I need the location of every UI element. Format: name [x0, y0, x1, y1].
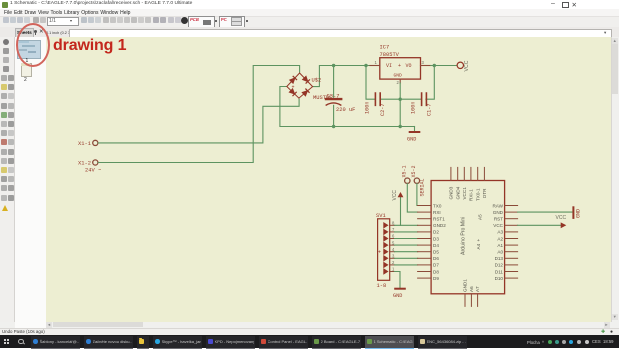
svg-text:7805TV: 7805TV: [380, 52, 400, 58]
svg-text:GND: GND: [493, 209, 504, 214]
wire IC7 output to VCC: [431, 64, 457, 66]
pin 1 of IC7: [370, 60, 380, 66]
svg-text:X1-2: X1-2: [78, 160, 91, 166]
wire GND pin to ground right: [518, 211, 572, 213]
svg-text:VI: VI: [386, 62, 392, 68]
svg-text:D7: D7: [433, 262, 439, 267]
wire C2 branch down: [366, 65, 375, 99]
svg-text:VCC: VCC: [392, 189, 398, 200]
svg-text:C1-7: C1-7: [427, 103, 433, 115]
terminal X1-1: [78, 140, 98, 147]
bridge rectifier U$2: [287, 73, 313, 98]
sheets tab: [15, 28, 34, 38]
svg-text:D12: D12: [495, 262, 504, 267]
wire VCC pin to supply arrow: [518, 224, 561, 226]
svg-text:TX0-1: TX0-1: [475, 188, 480, 201]
junction output / C1 branch: [433, 63, 436, 66]
svg-text:D9: D9: [433, 275, 439, 280]
wire bridge minus to bottom rail: [280, 86, 415, 126]
svg-text:RST1: RST1: [433, 216, 445, 221]
svg-text:24V ~: 24V ~: [85, 167, 101, 173]
svg-text:D13: D13: [495, 256, 504, 261]
SV1 pin numbers 8..1: [392, 220, 395, 271]
pin 3 of IC7: [421, 60, 431, 66]
command input: [69, 29, 612, 38]
junction cap row: [399, 97, 402, 100]
sheet thumb 1: [17, 40, 41, 59]
supply VCC arrow up: [392, 189, 403, 225]
wire bridge plus to top rail: [313, 65, 370, 86]
Arduino Pro Mini U1: [431, 180, 505, 293]
svg-text:VCC: VCC: [464, 60, 470, 71]
svg-text:A2: A2: [497, 236, 503, 241]
svg-text:+: +: [378, 249, 381, 255]
wire cap row: [381, 98, 421, 100]
wire X5-2 to TX0: [416, 183, 419, 205]
capacitor C3 220uF top plate: [326, 97, 341, 99]
svg-text:GND: GND: [576, 208, 582, 217]
svg-text:A6: A6: [469, 285, 474, 291]
svg-text:C2-7: C2-7: [380, 103, 386, 115]
junction top rail / C3: [332, 63, 335, 66]
svg-text:RST: RST: [494, 216, 503, 221]
junction bottom rail / 7805 gnd: [399, 124, 402, 127]
svg-text:A5: A5: [478, 213, 483, 219]
capacitor C2 100n: [364, 93, 386, 116]
svg-text:D2: D2: [433, 229, 439, 234]
svg-text:GND2: GND2: [433, 223, 446, 228]
wire IC7 gnd down to rail: [399, 83, 401, 127]
junction bottom rail / C3: [332, 124, 335, 127]
junction top rail / C2 branch: [364, 63, 367, 66]
svg-text:IC7: IC7: [380, 44, 390, 50]
svg-text:VCC: VCC: [556, 215, 567, 221]
diode D-TL: [290, 76, 297, 83]
schematic SVG placed over canvas: [46, 37, 610, 322]
terminal X1-2: [78, 159, 98, 166]
svg-text:RXI: RXI: [433, 209, 441, 214]
svg-text:X5-2: X5-2: [411, 165, 417, 177]
svg-text:2: 2: [397, 80, 400, 85]
wire C3 bottom: [333, 105, 335, 126]
Arduino right pin names: [492, 203, 503, 281]
wire C1 branch down: [426, 65, 434, 99]
capacitor C1 100n: [410, 93, 432, 116]
sheet thumb 2: [21, 63, 33, 77]
Arduino top pin names: [449, 186, 488, 201]
dropdown combo: [47, 17, 79, 26]
svg-text:D4: D4: [433, 242, 439, 247]
svg-text:GND: GND: [393, 293, 402, 299]
Arduino right pin stubs: [505, 205, 518, 278]
supply VCC arrow right: [561, 222, 567, 228]
svg-text:RXI-1: RXI-1: [469, 188, 474, 200]
Arduino inner labels A5 A4: [476, 213, 483, 249]
ground GND1 under rail: [407, 126, 419, 142]
svg-text:X5-1: X5-1: [402, 165, 408, 177]
wire X1-1 to bridge bottom (AC2): [98, 99, 299, 143]
Arduino left pin names: [433, 203, 446, 281]
svg-text:GND3: GND3: [449, 186, 454, 199]
Arduino bottom pin stubs: [465, 293, 478, 306]
svg-text:GND: GND: [394, 72, 403, 78]
supply VCC circle: [457, 60, 470, 71]
SV1 pin arrows: [384, 222, 388, 273]
jumper X5-1: [402, 165, 410, 183]
pin 2 of IC7: [397, 79, 401, 85]
Arduino bottom pin names: [463, 278, 481, 291]
svg-text:100n: 100n: [410, 101, 416, 113]
svg-text:1: 1: [375, 60, 378, 65]
svg-text:VO: VO: [406, 62, 412, 68]
svg-text:GND1: GND1: [463, 278, 468, 291]
red logo buttons: [188, 16, 215, 28]
svg-text:SV1: SV1: [376, 213, 386, 219]
svg-text:A7: A7: [475, 285, 480, 291]
svg-text:VCC1: VCC1: [462, 186, 467, 199]
svg-text:VCC: VCC: [493, 223, 503, 228]
wire SV1-8 to GND2 with VCC tap: [395, 224, 418, 226]
svg-text:SERIAL: SERIAL: [420, 178, 426, 196]
svg-text:RAW: RAW: [492, 203, 503, 208]
svg-text:D3: D3: [433, 236, 439, 241]
voltage regulator IC7 7805TV: [380, 44, 421, 79]
diode D-BR: [302, 88, 309, 95]
ground under SV1: [393, 288, 405, 298]
wire X5-1 to RXI: [407, 183, 417, 212]
Arduino left pin stubs: [418, 205, 432, 278]
svg-text:A3: A3: [497, 229, 503, 234]
svg-text:+: +: [292, 84, 295, 90]
Arduino top pin stubs: [451, 167, 485, 180]
svg-text:GND: GND: [407, 136, 416, 142]
svg-text:220 uF: 220 uF: [336, 107, 355, 113]
connector SV1: [376, 213, 390, 289]
svg-text:A0: A0: [497, 249, 503, 254]
diode D-BL: [289, 88, 296, 95]
svg-text:100n: 100n: [364, 101, 370, 113]
svg-text:D8: D8: [433, 269, 439, 274]
wire X1-2 to bridge top (AC1): [98, 65, 299, 162]
svg-text:A1: A1: [497, 242, 503, 247]
svg-text:DTR: DTR: [482, 187, 487, 197]
svg-text:X1-1: X1-1: [78, 141, 91, 147]
svg-text:U$2: U$2: [312, 77, 322, 83]
SV1 pin stubs: [390, 225, 395, 271]
svg-text:D5: D5: [433, 249, 439, 254]
svg-text:D6: D6: [433, 256, 439, 261]
wire SV1-1 to ground: [395, 271, 400, 288]
svg-text:GND4: GND4: [455, 186, 460, 199]
svg-text:MUSTBE: MUSTBE: [313, 95, 332, 101]
svg-text:D10: D10: [495, 275, 504, 280]
coordinate display: [46, 31, 75, 35]
svg-text:+: +: [476, 238, 481, 241]
diode D-TR: [303, 76, 310, 83]
svg-text:+: +: [398, 62, 401, 68]
svg-text:Arduino Pro Mini: Arduino Pro Mini: [461, 216, 467, 254]
svg-text:3: 3: [422, 60, 425, 65]
wire C3 top: [333, 65, 335, 97]
jumper X5-2: [411, 165, 419, 183]
capacitor C3 curved plate: [326, 102, 341, 104]
svg-text:A4: A4: [476, 243, 481, 249]
svg-text:TX0: TX0: [433, 203, 442, 208]
svg-text:1-8: 1-8: [377, 283, 387, 289]
wires SV1 pins to D2..D7: [395, 231, 418, 264]
ground right of Arduino: [573, 207, 581, 218]
svg-text:D11: D11: [495, 269, 504, 274]
